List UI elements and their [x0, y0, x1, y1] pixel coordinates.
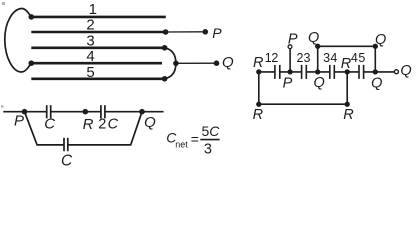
svg-text:R: R	[343, 107, 354, 123]
svg-text:P: P	[14, 112, 24, 129]
svg-text:3: 3	[204, 142, 212, 158]
svg-text:Q: Q	[400, 63, 411, 79]
svg-text:net: net	[175, 139, 188, 149]
svg-text:2: 2	[297, 51, 304, 65]
svg-text:3: 3	[86, 33, 94, 50]
svg-text:4: 4	[351, 51, 358, 65]
svg-text:Q: Q	[144, 114, 156, 131]
svg-text:4: 4	[86, 48, 94, 65]
svg-text:R: R	[83, 116, 94, 133]
svg-text:Q: Q	[371, 75, 382, 91]
svg-text:Q: Q	[375, 32, 386, 48]
svg-text:C: C	[61, 152, 73, 169]
svg-text:2: 2	[86, 17, 94, 34]
svg-text:R: R	[341, 56, 352, 72]
svg-text:=: =	[191, 131, 199, 147]
svg-text:Q: Q	[314, 75, 325, 91]
svg-text:C: C	[44, 115, 55, 132]
svg-text:P: P	[283, 76, 293, 92]
svg-text:R: R	[253, 55, 264, 71]
svg-text:5: 5	[358, 51, 365, 65]
svg-text:2: 2	[271, 51, 278, 65]
svg-text:P: P	[288, 32, 298, 48]
svg-text:P: P	[212, 25, 222, 41]
svg-text:3: 3	[323, 51, 330, 65]
svg-text:Q: Q	[222, 54, 234, 71]
svg-text:5C: 5C	[202, 123, 221, 139]
svg-text:2C: 2C	[98, 116, 119, 132]
svg-text:4: 4	[330, 51, 337, 65]
svg-text:Q: Q	[308, 30, 319, 46]
svg-text:5: 5	[86, 64, 94, 81]
svg-text:3: 3	[304, 51, 311, 65]
svg-text:R: R	[253, 107, 264, 123]
svg-text:1: 1	[89, 1, 97, 18]
